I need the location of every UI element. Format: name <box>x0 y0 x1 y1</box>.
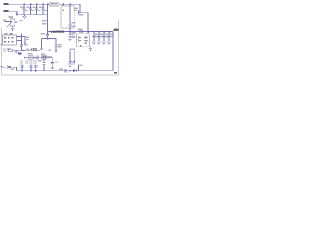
wire FB <box>48 31 114 33</box>
label box F1 <box>50 2 59 6</box>
wire v70 <box>69 50 71 61</box>
bottom mid text <box>59 68 63 70</box>
pin 2 wire <box>69 4 70 5</box>
wire into U2 <box>87 32 89 34</box>
svg-text:+5V: +5V <box>30 48 38 52</box>
ground arrow <box>23 15 26 19</box>
pin 1 <box>62 4 63 5</box>
sheet border <box>2 20 119 75</box>
gnd label blob <box>114 72 117 74</box>
ground GND6 <box>51 67 54 69</box>
capacitor C6 <box>78 11 80 15</box>
net label pair <box>69 48 75 50</box>
U2 label <box>72 33 75 34</box>
capacitor C10 <box>97 31 103 44</box>
wire mid row <box>24 57 52 59</box>
capacitor C11 <box>102 31 108 44</box>
capacitor C4 <box>39 4 47 15</box>
ground arrow GND4 <box>68 38 71 40</box>
wire out row <box>22 50 41 52</box>
diode D2 <box>73 69 76 72</box>
capacitor C12 <box>107 31 113 44</box>
node junction <box>69 61 70 62</box>
node junction <box>47 38 48 39</box>
border tick <box>1 66 3 67</box>
U2 internals <box>77 36 79 42</box>
ground rail <box>19 14 48 16</box>
wire branch <box>42 38 57 40</box>
wire branch x25 <box>22 37 27 45</box>
net label +5V <box>26 49 29 50</box>
label R text <box>42 20 47 22</box>
wire left vertical <box>22 34 25 51</box>
wire v78 <box>78 65 80 71</box>
capacitor C13 <box>20 45 23 46</box>
trimmer R1 <box>3 16 23 27</box>
ground GND3 <box>54 51 57 53</box>
node junction out <box>69 31 70 32</box>
wire input minus <box>9 11 17 13</box>
capacitor C7 <box>41 32 50 39</box>
capacitor C19 riser <box>38 59 46 70</box>
node junction <box>34 57 35 58</box>
node FB junction <box>47 31 48 32</box>
wire input rail <box>9 3 80 5</box>
power flag +5V <box>113 29 118 32</box>
series cap on rail <box>65 69 66 72</box>
capacitor C2 <box>27 4 35 15</box>
regulator U2 body <box>77 34 90 47</box>
capacitor C14 <box>51 63 55 68</box>
wire top right corner <box>79 4 89 12</box>
terminal arrow <box>24 56 26 59</box>
wire JP1 out1 <box>17 36 22 38</box>
diode row <box>3 48 22 55</box>
LED D1 <box>18 52 21 54</box>
node junction <box>87 31 88 32</box>
U2 ground pin <box>89 47 92 51</box>
node junction <box>21 40 22 41</box>
ground arrow GND7 <box>69 65 72 67</box>
terminal J2 <box>3 10 8 12</box>
ground GND1 <box>15 14 18 16</box>
svg-text:LM2596S: LM2596S <box>51 30 65 34</box>
wire right vertical <box>87 13 89 32</box>
capacitor C16 riser <box>20 60 29 71</box>
capacitor series <box>37 56 38 60</box>
capacitor C8 <box>54 39 61 51</box>
wire right down <box>112 32 114 71</box>
node junction <box>69 70 70 71</box>
capacitor C15 <box>68 62 71 64</box>
connector JP1 <box>3 33 17 45</box>
capacitor C20 <box>92 31 98 44</box>
wire vertical feed <box>47 4 49 31</box>
label text C13 <box>26 37 29 38</box>
capacitor C5 <box>68 24 71 31</box>
bottom rail <box>17 70 114 72</box>
node VIN junction <box>47 4 48 5</box>
IC U1 body <box>61 6 75 28</box>
wire corner down <box>51 58 53 63</box>
capacitor C18 riser <box>34 60 38 71</box>
resistor R3 <box>28 56 33 60</box>
terminal J1 <box>3 3 8 5</box>
left speaker SP1 <box>2 65 17 71</box>
capacitor C9 <box>68 32 75 39</box>
capacitor C3 <box>33 4 41 15</box>
capacitor C17 riser <box>29 60 32 71</box>
wire JP1 out2 <box>17 40 22 42</box>
wire v74 <box>70 50 74 61</box>
ground GND5 <box>11 26 14 31</box>
ground GND2 <box>40 39 43 50</box>
capacitor C1 <box>20 4 28 15</box>
component X1 <box>42 55 47 59</box>
resistor R2 on wire <box>77 29 82 30</box>
label text <box>48 50 51 51</box>
